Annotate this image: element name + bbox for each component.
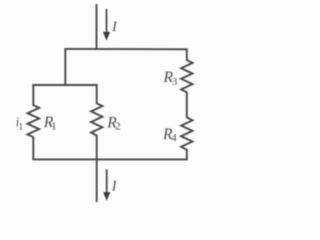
- wire: top input lead: [96, 4, 98, 50]
- resistor R2 and output lead: [91, 85, 102, 203]
- svg-text:3: 3: [172, 77, 177, 88]
- svg-text:I: I: [111, 19, 118, 35]
- svg-text:2: 2: [115, 121, 121, 133]
- resistor R3, wire, resistor R4 (right branch): [181, 49, 192, 160]
- wire: left drop from top rail to middle rail: [64, 49, 66, 86]
- svg-text:I: I: [111, 179, 118, 195]
- current arrow I (top): [106, 9, 108, 34]
- svg-text:1: 1: [18, 122, 23, 132]
- current arrow I (bottom): [106, 169, 108, 193]
- wire: middle rail: [32, 84, 97, 86]
- wire: top rail: [64, 48, 187, 50]
- svg-text:1: 1: [51, 121, 57, 133]
- wire: bottom rail: [32, 158, 187, 160]
- resistor R1: [28, 85, 40, 161]
- svg-text:4: 4: [171, 133, 177, 144]
